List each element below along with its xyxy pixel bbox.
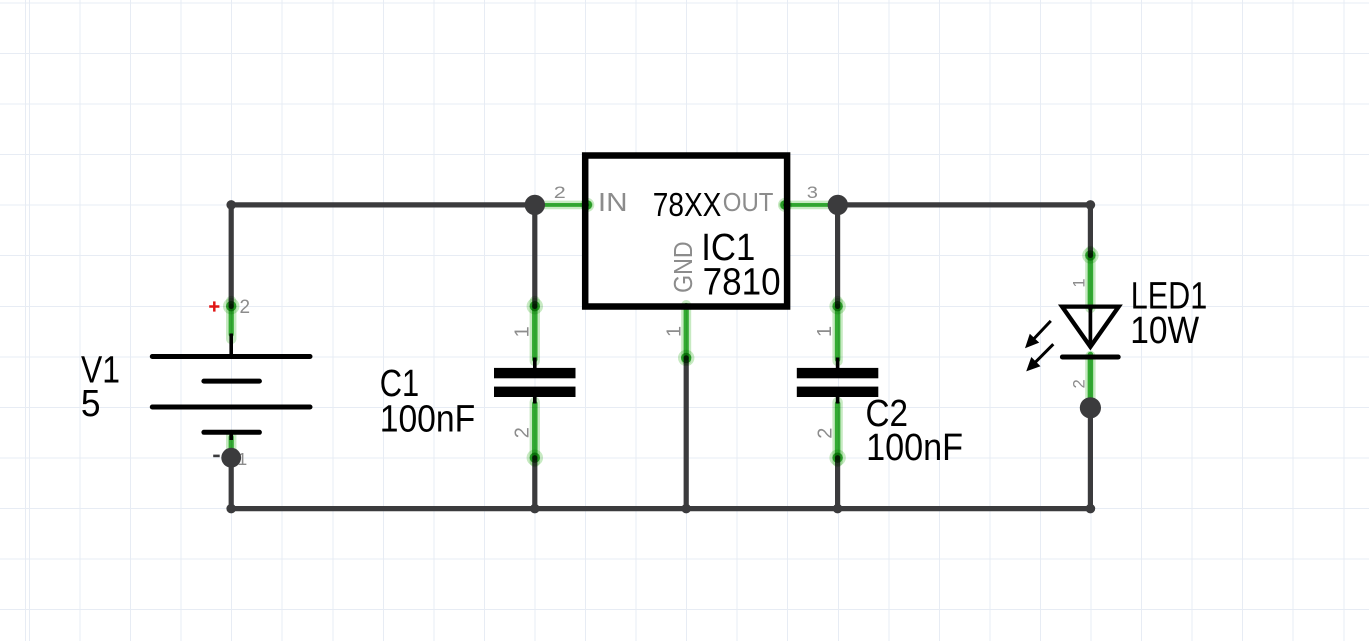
svg-text:OUT: OUT [723,189,774,217]
wire top-left vertical from battery plus to corner [229,205,234,307]
label C1b: 100nF [380,397,476,440]
wire top rail right: OUT junction to top-right corner [838,202,1090,207]
capacitor C2 bottom plate [797,387,879,397]
svg-text:2: 2 [815,428,837,439]
rotated label c1p1: 1 [511,326,533,337]
C1 pin 2 leg glow [530,402,540,462]
label ICa: IC1 [701,226,755,269]
label V1b: 5 [81,382,101,424]
IC1 GND pin leg [684,306,689,358]
IC1 OUT pin leg glow [784,201,831,210]
rotated label c2p1: 1 [814,326,836,337]
IC1 GND pin leg glow [681,305,691,360]
label ICb: 7810 [703,260,781,303]
LED1 center line inside triangle [1089,307,1093,348]
C2 pin 1 leg [835,306,841,359]
LED1 pin 2 leg glow [1085,356,1095,404]
capacitor C2 bottom stub [836,397,840,404]
svg-text:78XX: 78XX [653,187,722,224]
svg-text:1: 1 [511,326,533,337]
battery plus sign [209,305,219,308]
wire battery minus down to bottom rail [229,458,234,509]
LED1 pin 1 leg [1088,255,1094,308]
wire end dot at LED pin 2 [1080,397,1101,418]
IC1 voltage regulator body box [585,156,787,307]
battery V1 bottom terminal stub [229,432,233,440]
bendpoint dot bottom-left corner [226,504,236,514]
svg-text:3: 3 [807,183,818,202]
bendpoint dot bottom rail at C2 [833,504,843,514]
wire OUT junction down to C2 pin 1 [835,205,840,307]
wire IN junction down to C1 pin 1 [532,205,537,307]
svg-text:7810: 7810 [703,260,781,303]
wire C1 pin 2 down to bottom rail [532,458,537,509]
label pIN: IN [598,188,628,217]
svg-text:10W: 10W [1130,309,1199,351]
rotated label c1p2: 2 [511,427,533,438]
rotated label ledp1: 1 [1070,278,1089,287]
LED1 light emission arrow lower [1035,344,1054,363]
C1 pin 2 leg [532,404,538,458]
battery V1 pin 2 leg glow [226,301,236,339]
svg-text:1: 1 [814,326,836,337]
label V1a: V1 [81,349,120,391]
bendpoint dot bottom rail at C1 [530,504,540,514]
svg-text:2: 2 [1070,379,1089,388]
IC1 IN pin leg glow [542,201,589,210]
battery V1 pin 2 leg [229,306,234,334]
capacitor C1 bottom stub [533,397,537,404]
battery V1 pin 1 leg [229,437,234,458]
bendpoint dot bottom-right corner [1086,504,1096,514]
label C2b: 100nF [866,425,963,468]
rotated label ledp2: 2 [1070,379,1089,388]
LED1 pin 1 leg glow [1085,251,1095,308]
battery V1 plate short bottom [204,430,260,435]
capacitor C2 top plate [797,368,879,378]
svg-text:1: 1 [1070,278,1089,287]
battery V1 plate long top [152,354,310,359]
battery V1 top terminal stub [229,334,233,357]
junction dot at OUT node [828,195,848,215]
wire bottom rail [231,506,1090,511]
junction dot at IN node [525,195,545,215]
label pOUT: OUT [723,189,774,217]
capacitor C2 top stub [836,358,840,369]
LED1 cathode bar [1062,355,1118,360]
C1 pin 1 leg glow [530,301,540,361]
capacitor C1 bottom plate [494,387,576,397]
label C2a: C2 [866,392,909,435]
wire top rail left: corner to IN junction [231,202,536,207]
bendpoint dot bottom rail at IC GND [681,504,691,514]
capacitor C1 top stub [533,358,537,369]
C2 pin 1 leg glow [832,301,842,361]
svg-text:2: 2 [511,427,533,438]
IC1 IN pin leg [545,203,588,207]
label LEDa: LED1 [1131,275,1208,317]
svg-text:1: 1 [663,326,685,337]
label C1a: C1 [380,363,419,405]
rotated label gndp1: 1 [663,326,685,337]
svg-text:GND: GND [670,241,698,293]
label n3: 3 [807,183,818,202]
wire top-right corner down to LED pin 1 [1088,205,1093,256]
IC1 OUT pin leg [785,203,829,207]
C2 pin 2 leg glow [832,402,842,462]
battery V1 plate long lower [152,405,310,410]
wire LED pin 2 down to bottom-right corner [1088,408,1093,509]
battery V1 plate short upper [204,379,260,384]
svg-text:100nF: 100nF [866,425,963,468]
LED1 anode triangle [1062,307,1119,347]
label IC78: 78XX [653,187,722,224]
wire C2 pin 2 down to bottom rail [835,458,840,509]
rotated label c2p2: 2 [815,428,837,439]
battery minus sign [213,455,220,458]
label bat2: 2 [240,297,251,318]
svg-text:2: 2 [554,184,566,202]
C2 pin 2 leg [835,404,841,458]
svg-text:IN: IN [598,188,628,217]
label LEDb: 10W [1130,309,1199,351]
LED1 light emission arrow upper [1033,321,1051,340]
bendpoint dot top-right corner [1086,200,1096,210]
label n2: 2 [554,184,566,202]
svg-text:5: 5 [81,382,101,424]
battery V1 pin 1 leg glow [226,435,236,461]
capacitor C1 top plate [494,368,576,378]
label bat1: 1 [237,449,247,469]
svg-text:100nF: 100nF [380,397,476,440]
rotated label GND: GND [670,241,698,293]
bendpoint dot top-left corner [226,200,236,210]
wire end dot at battery pin 1 [221,448,241,468]
C1 pin 1 leg [532,306,538,359]
svg-text:2: 2 [240,297,251,318]
wire IC GND pin down to bottom rail [684,358,689,509]
LED1 pin 2 leg [1088,355,1094,403]
